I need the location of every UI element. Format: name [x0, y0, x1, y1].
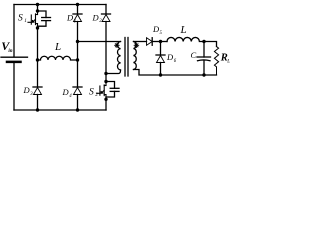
output bottom rail — [134, 70, 217, 76]
svg-text:2: 2 — [95, 92, 98, 98]
node S2 drain — [104, 80, 107, 83]
node bottom-left junction — [36, 108, 39, 111]
wire top-right corner down — [105, 5, 107, 15]
diode D5 (series rectifier) — [147, 38, 161, 46]
wire S2 source to bottom rail — [105, 99, 107, 110]
svg-text:1: 1 — [24, 18, 27, 24]
node D6 bottom — [159, 73, 162, 76]
wire S1 source down to L1 node — [37, 28, 39, 60]
node output L input — [159, 40, 162, 43]
wire left rail lower — [13, 64, 15, 111]
node L1 right — [76, 58, 79, 61]
svg-text:5: 5 — [160, 31, 163, 36]
diode D1 — [73, 5, 82, 42]
svg-text:in: in — [8, 49, 12, 54]
bottom rail — [14, 109, 106, 111]
node cap top — [202, 40, 205, 43]
wire node to L2 — [161, 41, 168, 43]
node S1 drain — [36, 9, 39, 12]
node C bottom — [202, 73, 205, 76]
transistor S2 (MOSFET) — [97, 82, 106, 100]
battery Vin short plate — [7, 61, 21, 64]
svg-text:6: 6 — [174, 59, 177, 64]
diode D4 — [73, 87, 82, 110]
wire to R corner — [204, 42, 217, 47]
diode D6 (freewheeling) — [156, 42, 165, 76]
wire S2 drain — [105, 74, 107, 82]
node L1 left — [36, 58, 39, 61]
capacitor across S1 — [38, 11, 51, 26]
wire down to D4 — [77, 60, 79, 87]
battery Vin long plate — [1, 56, 28, 58]
transformer T1 secondary winding — [134, 42, 137, 70]
inductor L1 — [38, 56, 78, 60]
node top-left junction — [36, 3, 39, 6]
svg-text:L: L — [226, 59, 230, 64]
svg-text:1: 1 — [74, 19, 76, 24]
node S2 source — [104, 98, 107, 101]
node mid wire left — [76, 40, 79, 43]
node top-mid junction — [76, 3, 79, 6]
svg-text:C: C — [191, 50, 197, 60]
wire primary bottom — [106, 71, 121, 74]
transformer T1 primary winding — [117, 42, 120, 70]
node primary bottom — [104, 72, 107, 75]
svg-text:L: L — [180, 24, 187, 36]
transformer core — [124, 38, 126, 77]
capacitor across S2 — [106, 82, 119, 98]
node S1 source — [36, 26, 39, 29]
resistor RL (load) — [214, 47, 218, 76]
primary phase dot — [115, 43, 120, 48]
wire secondary top to D5 — [134, 41, 147, 43]
capacitor C — [197, 42, 211, 76]
svg-text:4: 4 — [69, 94, 72, 99]
svg-text:S: S — [18, 13, 23, 23]
secondary phase dot — [134, 43, 139, 48]
wire D1 to L1 node — [77, 42, 79, 61]
wire middle horizontal to primary — [78, 41, 121, 43]
diode D2 — [102, 14, 111, 74]
wire left rail upper — [13, 5, 15, 57]
svg-text:S: S — [89, 87, 94, 97]
svg-text:3: 3 — [30, 92, 33, 97]
wire S1 drain from top rail — [37, 5, 39, 12]
transistor S1 (MOSFET) — [28, 11, 38, 28]
inductor L2 — [167, 37, 205, 41]
node bottom-mid junction — [76, 108, 79, 111]
diode D3 — [33, 87, 42, 110]
top rail — [14, 4, 106, 6]
wire D3 branch — [37, 60, 39, 87]
svg-text:L: L — [54, 41, 61, 53]
